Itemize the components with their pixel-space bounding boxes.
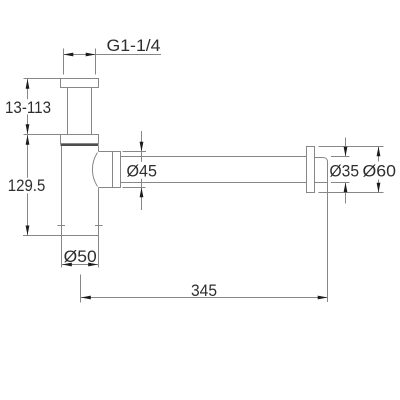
elbow top line [99, 151, 121, 153]
arrow O45 down [140, 142, 144, 152]
svg-text:129.5: 129.5 [8, 176, 46, 195]
arrow O35 down [344, 147, 348, 157]
elbow bottom line [99, 187, 121, 189]
inlet pipe [68, 88, 92, 135]
text mask 13-113 [22, 99, 33, 114]
body seam tick right [95, 225, 103, 227]
arrow O35 up [344, 183, 348, 193]
wall stub bottom [315, 182, 328, 184]
O35 dimension line lower [345, 183, 347, 204]
svg-text:Ø50: Ø50 [64, 247, 97, 266]
wall stub with rounded corner [315, 158, 328, 162]
O60 extension top [319, 146, 384, 148]
outlet tube bottom [121, 182, 307, 184]
O35 dimension line upper [345, 138, 347, 157]
top flange [61, 79, 99, 88]
O60 extension bottom [319, 192, 384, 194]
345 left extension [80, 275, 82, 303]
svg-text:345: 345 [191, 281, 217, 300]
svg-text:13-113: 13-113 [5, 98, 51, 117]
O50 dimension line [62, 264, 99, 266]
O60 dimension line upper [378, 147, 380, 162]
body flange [61, 135, 99, 144]
arrow O50 right [88, 263, 98, 267]
13-113 top extension [24, 78, 61, 80]
svg-text:Ø60: Ø60 [363, 162, 397, 181]
arrow O45 up [140, 188, 144, 198]
wall flange [307, 147, 315, 193]
O60 dimension line lower [378, 180, 380, 193]
body left wall + O50 extension [61, 146, 63, 268]
body right wall upper [98, 146, 100, 152]
13-113 bottom extension [24, 134, 61, 136]
O35 extension top [331, 156, 350, 158]
O45 top extension [123, 151, 147, 153]
arrow G right [86, 53, 96, 57]
arrow 345 right [318, 296, 328, 300]
compression nut [113, 152, 121, 188]
O45 bottom extension [123, 187, 146, 189]
O45 dimension line [141, 131, 143, 210]
345 dimension line [81, 297, 328, 299]
arrow 129.5 down [26, 226, 30, 236]
stub edge + 345 right extension [327, 162, 329, 303]
arrow O50 left [62, 263, 72, 267]
arrow 13-113 up [26, 79, 30, 89]
body bottom + 129.5 extension [23, 235, 99, 237]
13-113 dimension line [27, 79, 29, 134]
O35 extension bottom [331, 182, 350, 184]
arrow 129.5 up [26, 135, 30, 145]
arrow 345 left [81, 296, 91, 300]
text mask 129.5 [21, 178, 34, 194]
body seam tick left [58, 225, 66, 227]
svg-text:Ø45: Ø45 [127, 162, 158, 181]
outlet tube top [121, 156, 307, 158]
ball joint arc [92, 153, 97, 187]
arrow O60 up [377, 147, 381, 157]
body right wall + O50 extension [98, 188, 100, 268]
G1-1/4 dimension line [64, 54, 162, 56]
G1-1/4 extension lines [64, 49, 96, 75]
129.5 dimension line [27, 135, 29, 235]
svg-text:Ø35: Ø35 [330, 162, 360, 181]
body flange seam (thick) [61, 144, 99, 146]
arrow 13-113 down [26, 124, 30, 134]
arrow O60 down [377, 183, 381, 193]
svg-text:G1-1/4: G1-1/4 [107, 36, 161, 55]
text mask O45 [126, 162, 158, 179]
arrow G left [64, 53, 74, 57]
